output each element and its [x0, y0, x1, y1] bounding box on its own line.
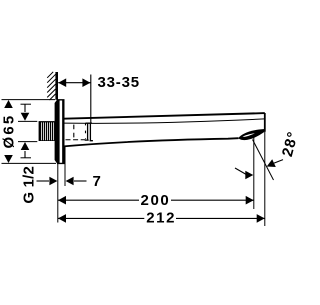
- flange outline: [57, 100, 64, 164]
- angle 28 diagonal: [253, 140, 274, 181]
- spout second top line: [64, 119, 265, 123]
- hidden connector left vertical: [73, 125, 75, 141]
- arrow left 33-35: [58, 78, 66, 87]
- angle arrow onto vertical: [235, 168, 247, 175]
- wall face: [55, 72, 58, 100]
- G1/2 arrow up: [21, 142, 30, 150]
- extension flange front down: [64, 146, 66, 186]
- arrow 200 right: [246, 196, 254, 205]
- extension 212 right: [264, 132, 266, 226]
- hidden connector dashes bottom: [66, 139, 87, 141]
- G1/2 extension bottom: [18, 141, 37, 143]
- hidden connector mid vertical: [85, 123, 87, 139]
- spout bottom edge: [64, 138, 239, 146]
- extension 200 right: [253, 138, 255, 210]
- svg-text:Ø65: Ø65: [1, 114, 18, 149]
- Ø65 extension bottom: [2, 162, 57, 164]
- G1/2 arrow down: [21, 103, 32, 105]
- svg-text:7: 7: [93, 173, 101, 190]
- wall hatch: [47, 72, 55, 100]
- aerator outlet: [238, 129, 264, 140]
- Ø65 arrow up: [4, 100, 13, 108]
- flange front edge: [62, 100, 64, 163]
- dimension 212 line right: [176, 217, 265, 219]
- thread nipple: [39, 121, 55, 141]
- arrow 212 right: [257, 214, 265, 223]
- dimension 7 left arrow: [37, 180, 50, 182]
- dimension 200 line left: [58, 199, 139, 201]
- extension wall face down: [57, 164, 59, 223]
- spout top edge: [64, 113, 265, 119]
- dimension 200 line right: [171, 199, 254, 201]
- svg-text:200: 200: [141, 192, 171, 209]
- arrow right 33-35: [82, 78, 90, 87]
- arrow 212 left: [58, 214, 66, 223]
- arrow 200 left: [58, 196, 66, 205]
- flange back band: [55, 100, 60, 164]
- svg-text:33-35: 33-35: [98, 74, 140, 91]
- Ø65 arrow down: [4, 155, 13, 163]
- extension line 33-35: [90, 75, 92, 124]
- dimension 33-35 line: [58, 82, 90, 84]
- spout tip face: [264, 113, 266, 132]
- svg-text:212: 212: [146, 209, 176, 226]
- dimension 212 line left: [58, 217, 145, 219]
- angle arrow onto diagonal: [274, 160, 283, 164]
- Ø65 extension top: [2, 99, 56, 101]
- dimension 7 right arrow: [66, 177, 74, 186]
- G1/2 extension top: [18, 120, 37, 122]
- svg-text:G 1/2: G 1/2: [21, 166, 38, 204]
- connector clip: [85, 123, 93, 141]
